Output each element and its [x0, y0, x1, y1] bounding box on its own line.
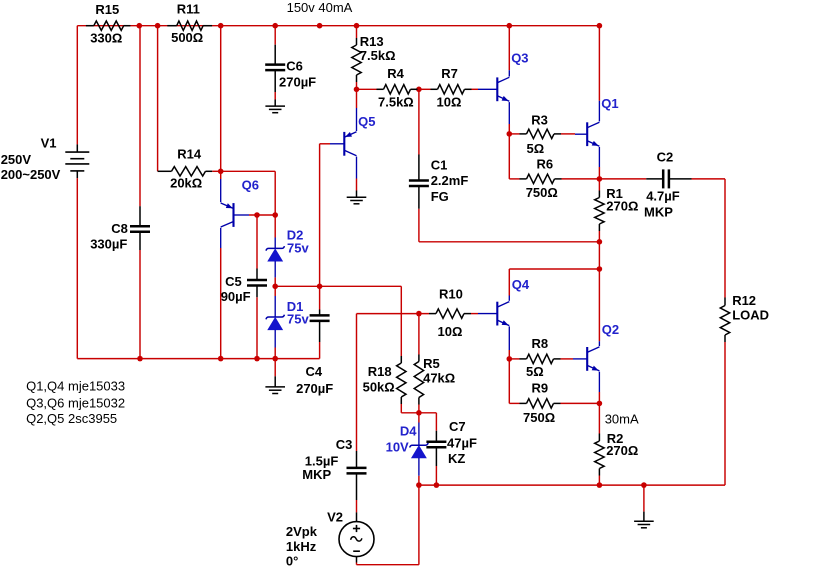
svg-text:R18: R18 [368, 364, 392, 379]
svg-text:270µF: 270µF [296, 381, 333, 396]
svg-text:Q2,Q5 2sc3955: Q2,Q5 2sc3955 [26, 411, 117, 426]
svg-text:LOAD: LOAD [732, 308, 769, 323]
svg-text:7.5kΩ: 7.5kΩ [360, 48, 396, 63]
svg-text:2.2mF: 2.2mF [431, 173, 469, 188]
svg-text:270Ω: 270Ω [606, 443, 638, 458]
svg-text:Q3,Q6 mje15032: Q3,Q6 mje15032 [26, 396, 125, 411]
svg-text:Q5: Q5 [358, 114, 375, 129]
svg-text:C6: C6 [286, 59, 303, 74]
svg-text:R6: R6 [537, 156, 554, 171]
svg-text:FG: FG [431, 189, 449, 204]
svg-text:330Ω: 330Ω [90, 30, 122, 45]
svg-text:R3: R3 [531, 112, 548, 127]
svg-text:Q4: Q4 [512, 277, 530, 292]
svg-text:C3: C3 [336, 437, 353, 452]
svg-text:D4: D4 [400, 424, 417, 439]
svg-text:C1: C1 [431, 157, 448, 172]
svg-text:10Ω: 10Ω [437, 94, 462, 109]
svg-text:Q1,Q4 mje15033: Q1,Q4 mje15033 [26, 379, 125, 394]
svg-text:500Ω: 500Ω [171, 30, 203, 45]
svg-text:C4: C4 [306, 364, 323, 379]
svg-text:C5: C5 [225, 274, 242, 289]
svg-text:R11: R11 [177, 1, 200, 16]
svg-text:0°: 0° [286, 554, 298, 569]
svg-text:C7: C7 [449, 419, 466, 434]
svg-text:330µF: 330µF [90, 236, 127, 251]
svg-text:7.5kΩ: 7.5kΩ [378, 94, 414, 109]
svg-text:1kHz: 1kHz [286, 539, 317, 554]
svg-text:270µF: 270µF [279, 75, 316, 90]
svg-text:R15: R15 [95, 2, 119, 17]
svg-text:200~250V: 200~250V [1, 167, 61, 182]
svg-text:R14: R14 [177, 147, 202, 162]
svg-text:V2: V2 [327, 510, 343, 525]
svg-text:R9: R9 [532, 380, 549, 395]
svg-text:2Vpk: 2Vpk [286, 524, 318, 539]
svg-text:75v: 75v [287, 311, 309, 326]
svg-text:R4: R4 [387, 66, 404, 81]
svg-text:V1: V1 [41, 135, 57, 150]
svg-text:30mA: 30mA [605, 412, 639, 427]
svg-text:750Ω: 750Ω [526, 185, 558, 200]
svg-text:Q1: Q1 [601, 96, 618, 111]
svg-text:KZ: KZ [448, 451, 465, 466]
svg-text:Q2: Q2 [602, 322, 619, 337]
svg-text:47µF: 47µF [447, 436, 477, 451]
svg-text:R5: R5 [423, 356, 440, 371]
svg-text:75v: 75v [287, 240, 309, 255]
svg-text:250V: 250V [1, 152, 32, 167]
svg-text:C8: C8 [111, 221, 128, 236]
svg-text:R7: R7 [441, 66, 458, 81]
svg-text:750Ω: 750Ω [523, 410, 555, 425]
svg-text:10V: 10V [386, 439, 409, 454]
svg-text:5Ω: 5Ω [527, 141, 545, 156]
svg-text:R12: R12 [732, 293, 756, 308]
svg-text:Q6: Q6 [242, 178, 259, 193]
svg-text:MKP: MKP [302, 467, 331, 482]
svg-text:50kΩ: 50kΩ [363, 380, 395, 395]
svg-text:47kΩ: 47kΩ [423, 371, 455, 386]
svg-text:R10: R10 [439, 287, 463, 302]
svg-text:Q3: Q3 [511, 50, 528, 65]
svg-text:C2: C2 [657, 149, 674, 164]
svg-text:20kΩ: 20kΩ [170, 176, 202, 191]
svg-text:270Ω: 270Ω [606, 198, 638, 213]
svg-text:150v 40mA: 150v 40mA [287, 0, 353, 15]
svg-text:5Ω: 5Ω [526, 364, 544, 379]
svg-text:10Ω: 10Ω [438, 324, 463, 339]
svg-text:R8: R8 [532, 336, 549, 351]
svg-text:4.7µF: 4.7µF [646, 189, 680, 204]
svg-text:MKP: MKP [644, 205, 673, 220]
svg-text:90µF: 90µF [221, 289, 251, 304]
